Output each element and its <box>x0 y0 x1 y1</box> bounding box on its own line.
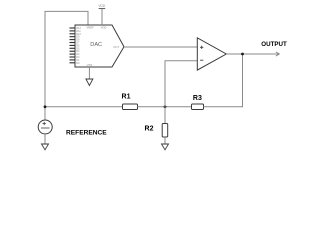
power symbol VDD <box>98 4 105 8</box>
svg-text:D0: D0 <box>76 61 80 65</box>
ground under DAC VSS <box>86 79 93 86</box>
svg-text:R1: R1 <box>122 94 131 101</box>
svg-text:OUT: OUT <box>113 45 119 49</box>
ground under source <box>42 144 49 150</box>
resistor R1 <box>122 94 138 110</box>
OUTPUT terminal arrow <box>276 52 279 56</box>
resistor R2 <box>145 124 168 138</box>
wire main rail from node to R1 <box>45 106 123 108</box>
svg-text:REFERENCE: REFERENCE <box>66 130 107 137</box>
svg-text:VDD: VDD <box>101 25 107 29</box>
svg-text:VDD: VDD <box>98 4 105 8</box>
ground under R2 <box>162 144 169 150</box>
wire op-amp output <box>226 53 279 55</box>
wire DAC OUT to op-amp non-inverting input <box>124 46 197 48</box>
voltage source V1 (REFERENCE) <box>38 120 107 137</box>
DAC data pin labels <box>76 26 81 65</box>
node A junction dot (rail/reference) <box>44 105 47 108</box>
DAC data pins (left side stubs) <box>70 28 76 63</box>
wire R3 to output node (feedback) <box>204 54 243 107</box>
svg-text:OUTPUT: OUTPUT <box>261 41 287 48</box>
DAC U1 body <box>75 25 124 67</box>
svg-text:R3: R3 <box>193 95 202 102</box>
wire VREF to reference node (top-left L wire) <box>45 11 88 120</box>
DAC VSS pin wire <box>88 67 90 79</box>
wire R1 to node B <box>138 106 192 108</box>
node B junction dot (R1/R2/R3/inverting input) <box>164 105 167 108</box>
wire R2 bottom to ground <box>164 137 166 144</box>
resistor R3 <box>192 95 204 110</box>
svg-text:VSS: VSS <box>87 63 93 67</box>
svg-text:DAC: DAC <box>90 42 102 48</box>
svg-text:VREF: VREF <box>86 25 94 29</box>
DAC VDD pin wire <box>101 9 103 25</box>
wire source bottom to ground <box>44 134 46 144</box>
op-amp U2 <box>197 38 226 70</box>
wire node B up to op-amp inverting input <box>165 61 197 124</box>
node C junction dot (output/feedback) <box>241 53 244 56</box>
svg-text:R2: R2 <box>145 126 154 133</box>
